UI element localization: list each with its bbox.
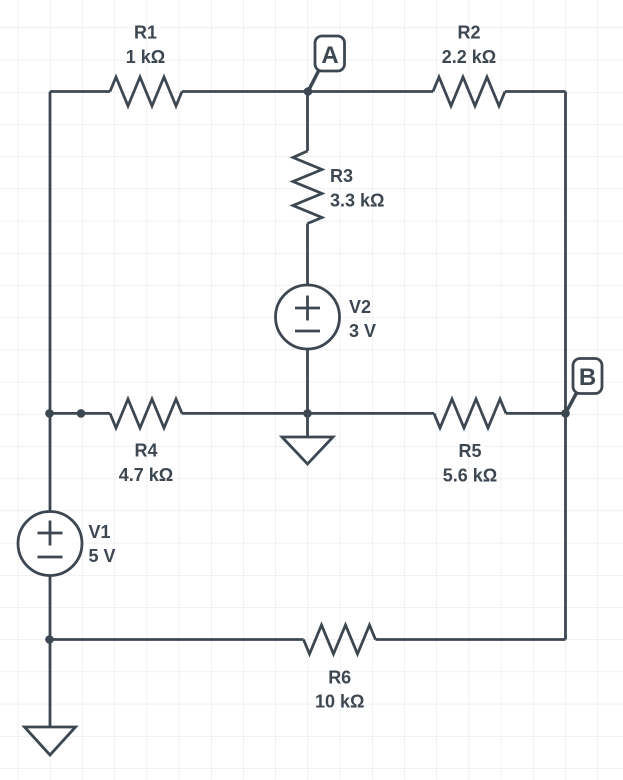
wire node A to R3 [306, 92, 309, 152]
wire left rail [49, 92, 52, 728]
resistor R6 [304, 625, 376, 654]
wire bottom rail with R6 [50, 638, 566, 641]
svg-text:R5: R5 [458, 441, 481, 461]
svg-text:R3: R3 [330, 166, 353, 186]
label R2 value [442, 23, 496, 68]
label V1 value [89, 522, 116, 566]
ground bottom-left [25, 727, 76, 755]
wire middle rail with R4 and R5 [50, 412, 566, 415]
svg-text:2.2 kΩ: 2.2 kΩ [442, 47, 496, 67]
wire top rail with R1 and R2 [50, 90, 566, 93]
junction node A dot [304, 87, 313, 96]
node B callout [566, 359, 603, 414]
junction dot left-bottom [45, 635, 54, 644]
svg-text:R1: R1 [134, 23, 157, 43]
junction dot left-middle [45, 409, 54, 418]
label node B letter [579, 364, 596, 391]
voltage source V2 [276, 285, 340, 349]
svg-text:A: A [321, 42, 338, 69]
svg-text:10 kΩ: 10 kΩ [315, 692, 364, 712]
svg-text:5 V: 5 V [89, 546, 116, 566]
junction node B dot [561, 409, 570, 418]
svg-text:R4: R4 [134, 441, 157, 461]
junction dot R4 input [77, 409, 86, 418]
voltage source V1 [18, 512, 82, 576]
label R3 value [330, 166, 384, 211]
label R6 value [315, 668, 364, 712]
svg-text:V1: V1 [89, 522, 111, 542]
label R1 value [126, 23, 165, 68]
junction dot center-middle [303, 409, 312, 418]
resistor R3 [293, 151, 322, 224]
node A callout [308, 36, 345, 92]
wire R3 to V2 [306, 224, 309, 286]
resistor R2 [433, 77, 505, 106]
svg-text:3 V: 3 V [349, 321, 376, 341]
svg-text:B: B [579, 364, 596, 391]
label V2 value [349, 297, 376, 341]
label R5 value [443, 441, 497, 486]
resistor R5 [434, 399, 506, 428]
label R4 value [119, 441, 173, 486]
wire right rail [564, 92, 567, 640]
resistor R4 [110, 399, 182, 428]
svg-text:4.7 kΩ: 4.7 kΩ [119, 465, 173, 485]
svg-text:3.3 kΩ: 3.3 kΩ [330, 191, 384, 211]
wire V2 to middle rail [306, 349, 309, 413]
label node A letter [321, 42, 338, 69]
svg-text:5.6 kΩ: 5.6 kΩ [443, 466, 497, 486]
svg-text:R6: R6 [328, 668, 351, 688]
svg-text:V2: V2 [349, 297, 371, 317]
ground center [282, 413, 333, 464]
svg-text:1 kΩ: 1 kΩ [126, 47, 165, 67]
resistor R1 [110, 77, 182, 106]
svg-text:R2: R2 [457, 23, 480, 43]
